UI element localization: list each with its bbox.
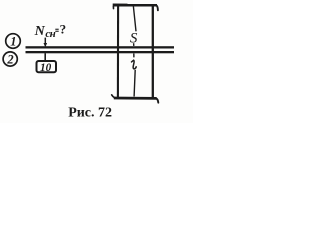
- svg-text:?: ?: [60, 22, 67, 37]
- screw axis upper segment: [133, 6, 136, 31]
- shaft 1 (upper shaft line): [26, 46, 175, 48]
- svg-text:Рис. 72: Рис. 72: [68, 105, 112, 120]
- gear box 10: [37, 61, 57, 74]
- wire from shaft 2 to gear box: [44, 53, 46, 61]
- frame left wall: [117, 6, 119, 97]
- tick below shaft: [133, 54, 135, 58]
- tick below S: [133, 43, 135, 46]
- frame top bar: [113, 4, 157, 7]
- shaft 2 (lower shaft line): [26, 51, 175, 53]
- node 2 (circled label 2): [3, 52, 17, 66]
- svg-text:N: N: [34, 24, 46, 39]
- label N_сн=?: [34, 22, 67, 40]
- svg-text:2: 2: [6, 52, 13, 66]
- node 1 (circled label 1): [6, 34, 21, 49]
- frame bottom bar: [114, 97, 157, 100]
- arrow into shaft 1: [44, 38, 48, 48]
- svg-text:сн: сн: [45, 28, 55, 40]
- svg-text:1: 1: [10, 34, 16, 48]
- screw axis lower segment: [134, 70, 135, 97]
- frame right wall: [152, 6, 154, 97]
- svg-text:10: 10: [40, 62, 52, 74]
- label l: [132, 60, 137, 69]
